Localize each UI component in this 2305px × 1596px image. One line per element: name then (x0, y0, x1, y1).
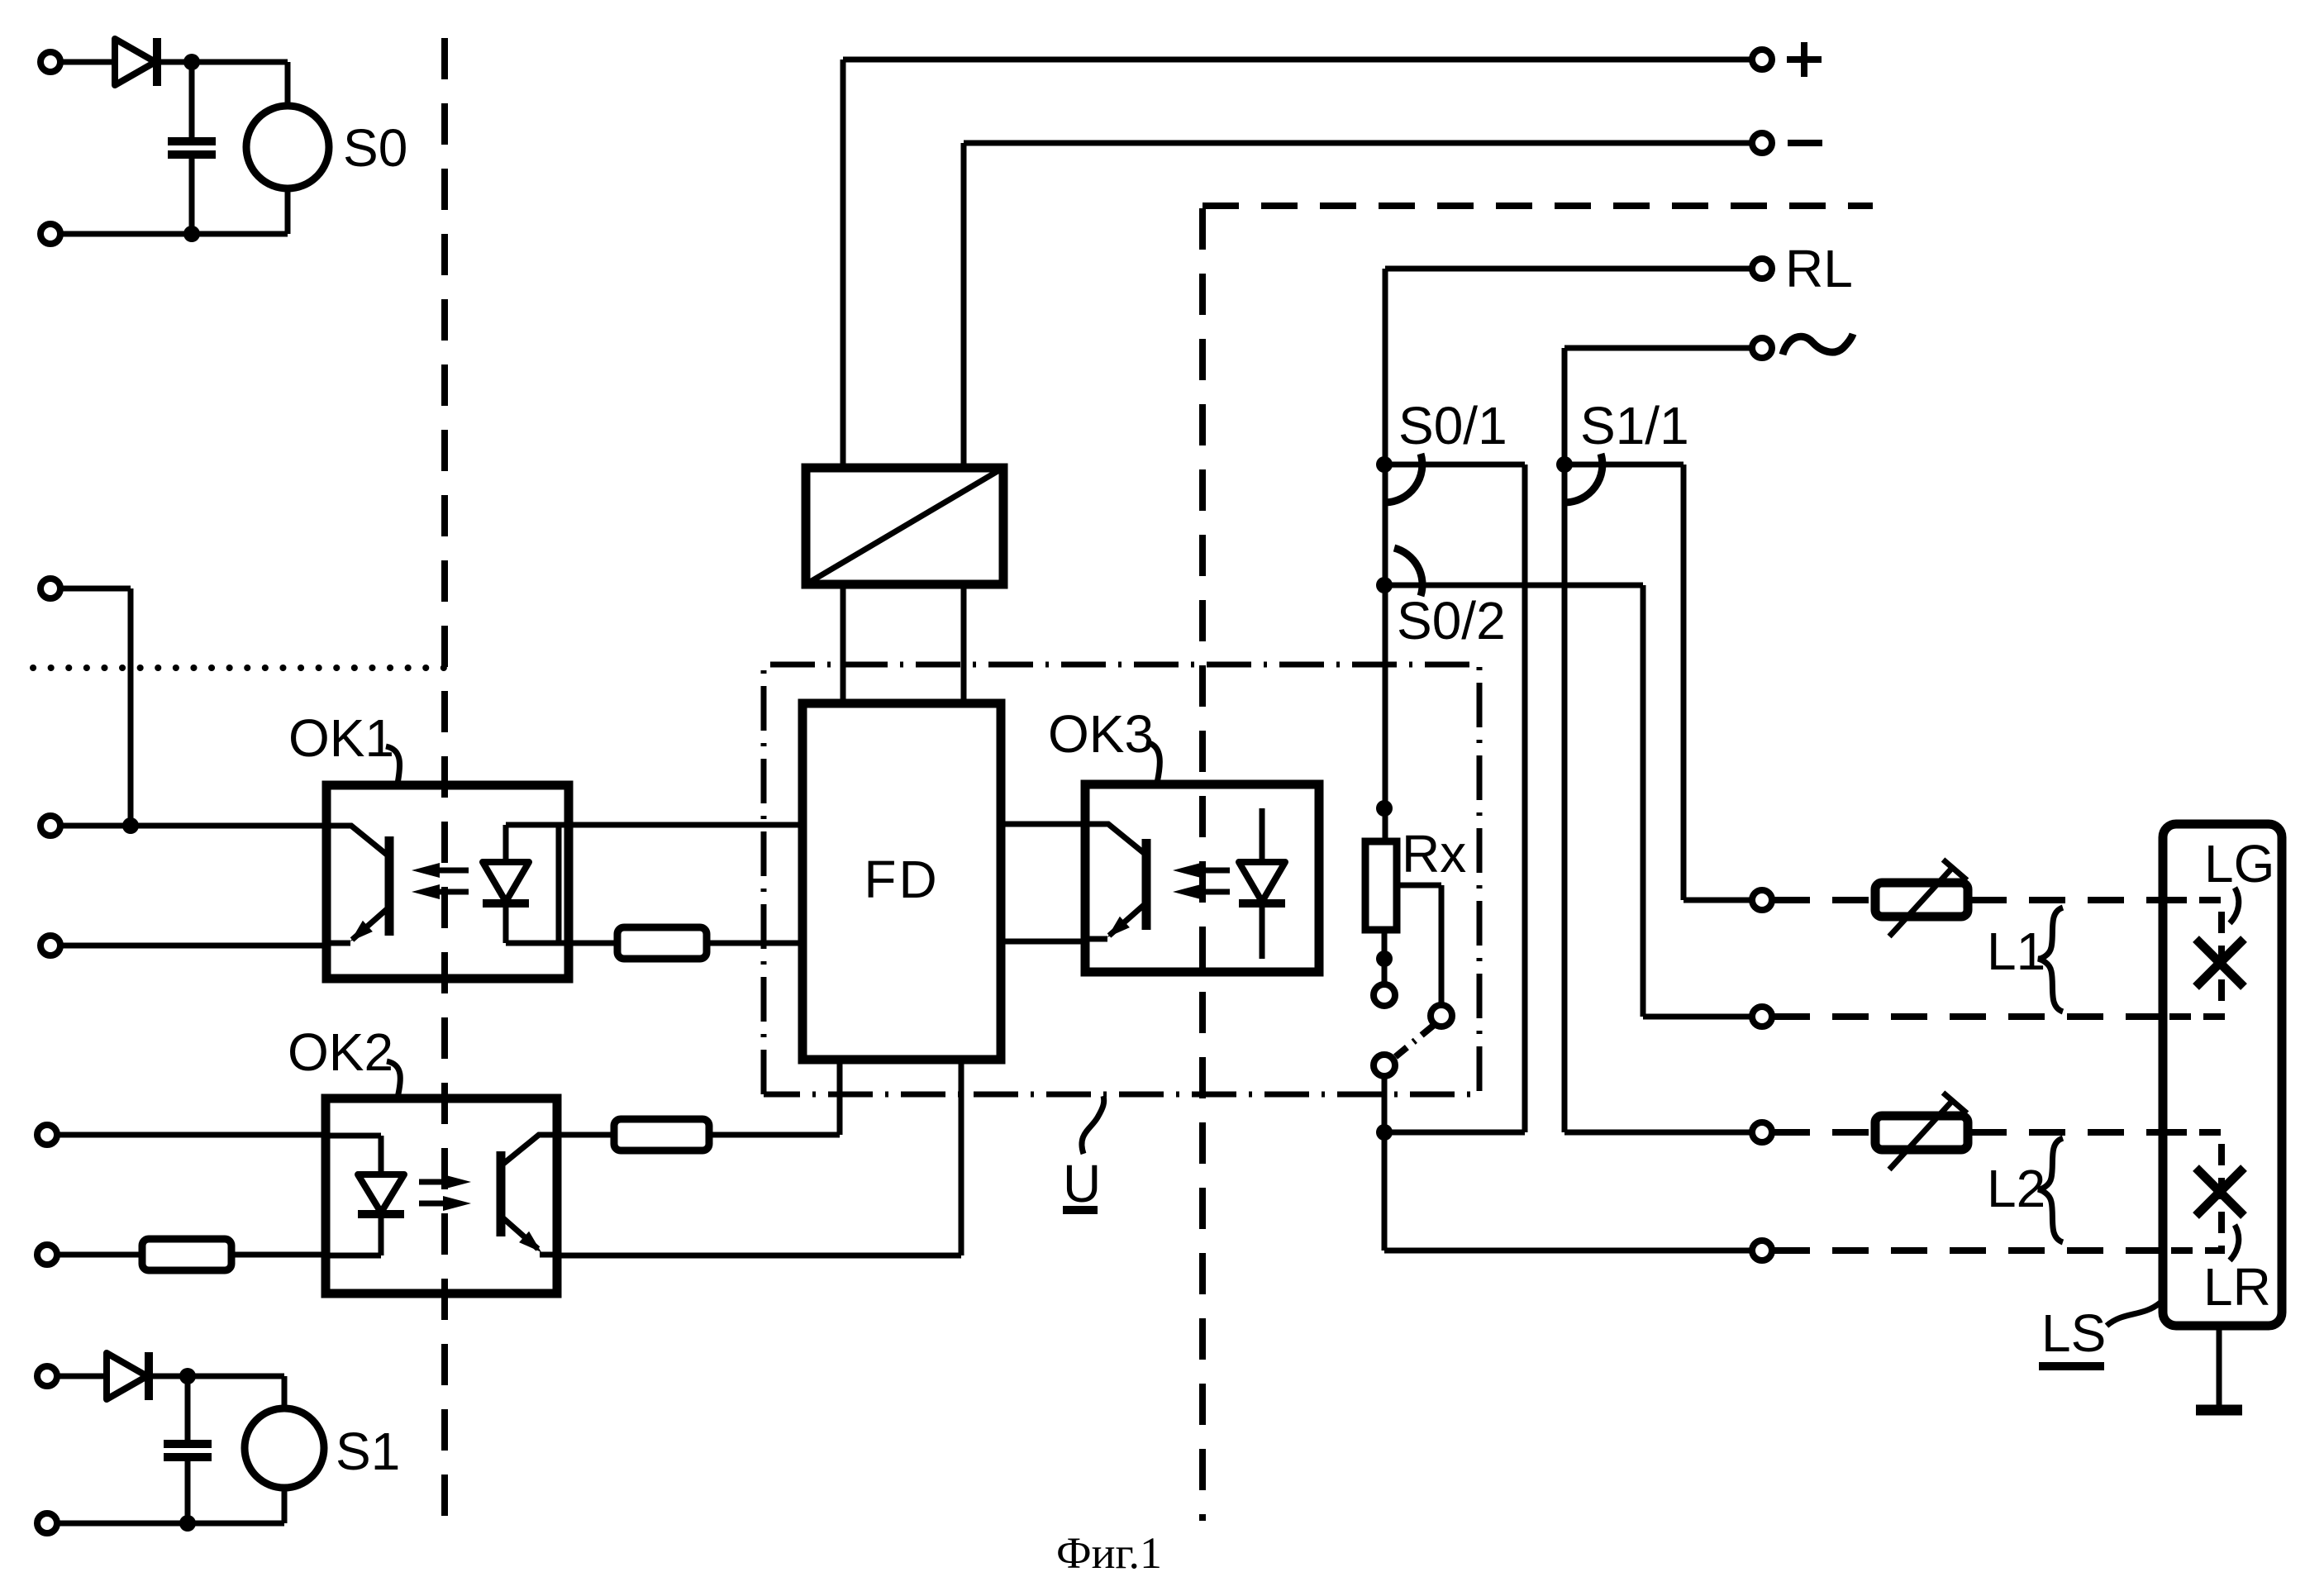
svg-text:RL: RL (1785, 239, 1853, 298)
svg-text:OK3: OK3 (1048, 704, 1154, 764)
svg-text:OK1: OK1 (288, 708, 394, 768)
svg-text:U: U (1063, 1154, 1101, 1213)
svg-text:S0: S0 (343, 118, 407, 178)
svg-text:LR: LR (2203, 1257, 2271, 1317)
svg-text:FD: FD (864, 850, 939, 909)
svg-text:S1: S1 (336, 1422, 400, 1481)
svg-text:L1: L1 (1987, 922, 2045, 981)
svg-text:S0/2: S0/2 (1397, 591, 1506, 650)
svg-text:OK2: OK2 (288, 1022, 393, 1082)
svg-text:S1/1: S1/1 (1580, 396, 1689, 455)
svg-text:S0/1: S0/1 (1398, 396, 1507, 455)
svg-text:LG: LG (2204, 834, 2274, 893)
svg-text:Фиг.1: Фиг.1 (1056, 1528, 1162, 1578)
svg-text:L2: L2 (1987, 1159, 2045, 1218)
svg-text:LS: LS (2041, 1303, 2106, 1363)
svg-text:Rx: Rx (1402, 824, 1466, 884)
